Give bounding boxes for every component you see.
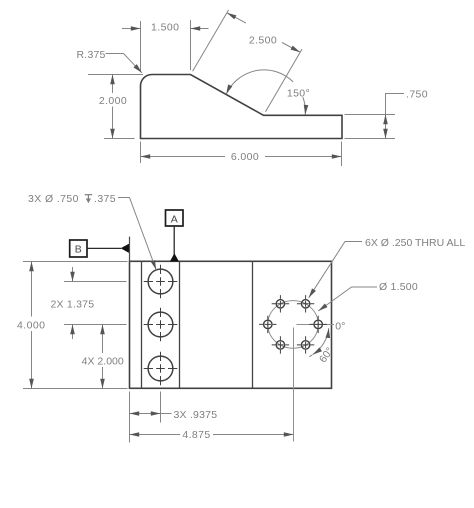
datum B symbol [70, 237, 130, 261]
datum A symbol [166, 210, 184, 261]
svg-text:6.000: 6.000 [231, 151, 259, 163]
small hole S3 (120 deg) [272, 336, 289, 353]
leader 6X thru holes callout [309, 242, 362, 298]
dimension 2.000 (side view height) [88, 75, 143, 139]
svg-text:0°: 0° [335, 320, 345, 332]
small hole S5 (240 deg) [272, 295, 289, 312]
bolt pattern vertical centerline [293, 328, 295, 442]
small hole S1 (0 deg) [310, 316, 327, 333]
svg-text:Ø 1.500: Ø 1.500 [379, 281, 418, 293]
hole H1 (top counterbore) [144, 265, 178, 299]
svg-text:4.000: 4.000 [17, 320, 45, 332]
dimension 4X 2.000 (hole to edge) [102, 325, 104, 389]
depth symbol [85, 195, 93, 204]
svg-text:150°: 150° [287, 87, 310, 99]
small hole S6 (300 deg) [297, 295, 314, 312]
dimension 4.000 (plan height) [23, 262, 128, 389]
dimension 1.500 [122, 20, 209, 71]
dimension .750 (step height) [345, 94, 405, 139]
hole H2 (middle counterbore) [144, 308, 178, 342]
leader bolt circle diameter [318, 287, 377, 311]
bolt pattern horizontal centerline (0 deg reference) [297, 324, 335, 326]
svg-text:.750: .750 [406, 89, 428, 101]
small hole S2 (60 deg) [297, 336, 314, 353]
svg-text:2X 1.375: 2X 1.375 [51, 299, 95, 311]
svg-text:1.500: 1.500 [151, 22, 179, 34]
svg-text:R.375: R.375 [77, 49, 106, 61]
dimension 60 degrees (angular) [309, 328, 329, 357]
svg-text:2.500: 2.500 [249, 35, 277, 47]
small hole S4 (180 deg) [259, 316, 276, 333]
leader 3X counterbore callout [118, 198, 156, 270]
svg-text:3X Ø .750: 3X Ø .750 [28, 193, 79, 205]
svg-text:4.875: 4.875 [182, 429, 210, 441]
dimension 2.500 (aligned) [193, 10, 302, 112]
svg-text:A: A [171, 214, 178, 226]
plan view edge line (slope end) [252, 261, 254, 388]
dimension 3X .9375 (hole offset) [130, 392, 172, 443]
plan view edge line (slope start) [179, 261, 181, 388]
plan view part outline [130, 261, 332, 388]
svg-text:2.000: 2.000 [99, 95, 127, 107]
svg-text:4X 2.000: 4X 2.000 [82, 356, 124, 368]
dimension 2X 1.375 (hole spacing) [64, 267, 127, 339]
svg-text:B: B [75, 244, 82, 256]
leader R.375 [106, 54, 142, 73]
svg-text:.375: .375 [94, 193, 116, 205]
hole H3 (bottom counterbore) [144, 352, 178, 386]
dimension 4.875 (bolt pattern offset) [130, 434, 294, 436]
plan view edge line (radius tangent) [141, 261, 143, 388]
bolt circle centerline [268, 301, 318, 349]
dimension 6.000 (side view width) [141, 142, 342, 167]
svg-text:6X Ø .250 THRU ALL: 6X Ø .250 THRU ALL [365, 237, 465, 249]
side view part outline [141, 75, 343, 139]
dimension 150 degrees (angular) [226, 70, 305, 115]
svg-text:3X .9375: 3X .9375 [174, 409, 218, 421]
